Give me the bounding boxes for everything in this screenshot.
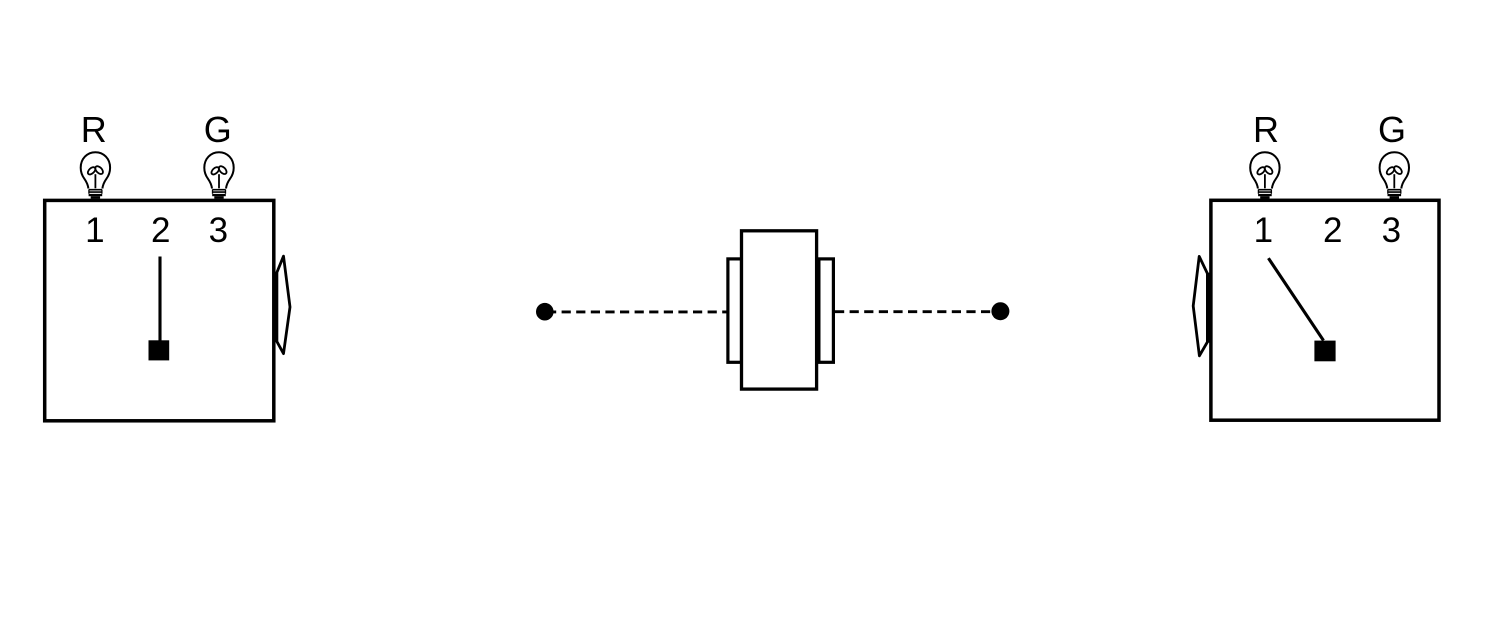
left shaft dashed link bbox=[547, 310, 728, 313]
svg-text:G: G bbox=[1378, 109, 1406, 150]
right shaft end dot bbox=[991, 302, 1009, 320]
svg-text:3: 3 bbox=[209, 211, 228, 250]
svg-text:1: 1 bbox=[1254, 211, 1273, 250]
coupling right flange bbox=[819, 259, 834, 362]
svg-text:R: R bbox=[81, 109, 107, 150]
coupling left flange bbox=[728, 259, 742, 362]
left shaft end dot bbox=[536, 303, 554, 321]
lamp R (left box) bbox=[81, 152, 110, 199]
selector knob (right box) bbox=[1314, 341, 1335, 362]
lamp G (left box) bbox=[204, 152, 233, 199]
coupling body bbox=[742, 231, 817, 389]
side handle (right box) bbox=[1193, 256, 1207, 355]
selector knob (left box) bbox=[149, 340, 170, 360]
svg-text:3: 3 bbox=[1382, 211, 1401, 250]
svg-text:R: R bbox=[1253, 109, 1279, 150]
selector lever (right box, pointing to 1) bbox=[1268, 258, 1323, 340]
side handle bar (right box) bbox=[1206, 273, 1209, 343]
right switch box bbox=[1211, 200, 1439, 420]
left switch box bbox=[45, 200, 274, 420]
selector lever (left box, pointing to 2) bbox=[158, 257, 161, 343]
lamp R (right box) bbox=[1250, 152, 1279, 199]
lamp G (right box) bbox=[1380, 152, 1409, 199]
right shaft dashed link bbox=[835, 310, 999, 313]
side handle (left box) bbox=[277, 256, 290, 353]
svg-text:G: G bbox=[204, 109, 232, 150]
svg-text:1: 1 bbox=[85, 211, 104, 250]
svg-text:2: 2 bbox=[1323, 211, 1342, 250]
svg-text:2: 2 bbox=[151, 211, 170, 250]
